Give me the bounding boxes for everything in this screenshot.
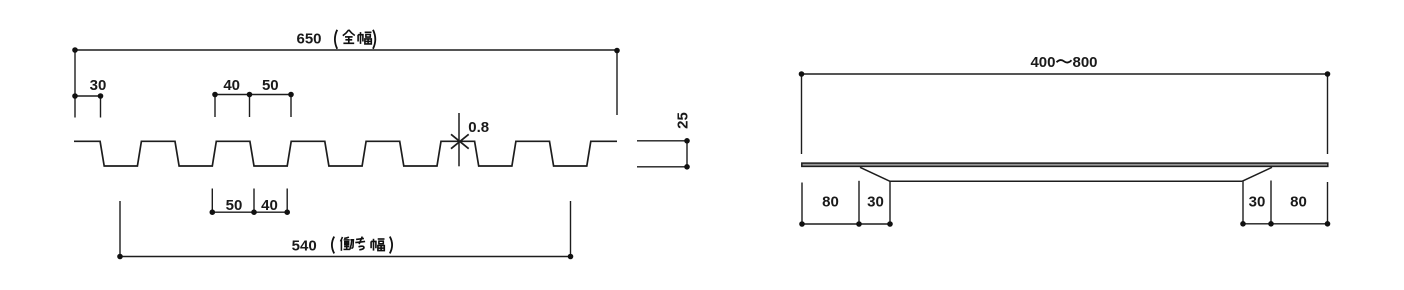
svg-text:40: 40 [261,197,278,214]
svg-text:0.8: 0.8 [468,119,489,136]
svg-text:50: 50 [226,197,243,214]
svg-text:30: 30 [90,77,107,94]
svg-text:650: 650 [296,30,321,47]
svg-text:80: 80 [1290,194,1307,211]
svg-text:800: 800 [1073,54,1098,71]
svg-text:40: 40 [223,77,240,94]
svg-text:25: 25 [675,112,692,129]
svg-text:30: 30 [1249,194,1266,211]
svg-text:30: 30 [867,194,884,211]
svg-text:50: 50 [262,77,279,94]
svg-text:400: 400 [1030,54,1055,71]
svg-text:540: 540 [292,238,317,255]
svg-text:80: 80 [822,194,839,211]
